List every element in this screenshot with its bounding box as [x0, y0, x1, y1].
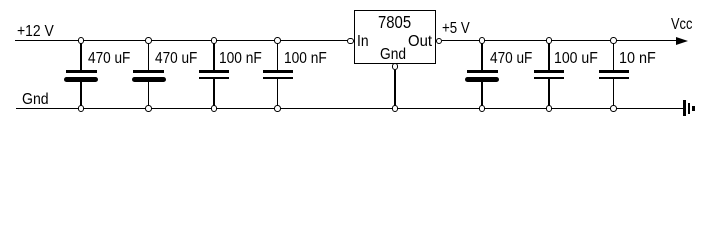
wire: U1 Gnd lead down to rail	[394, 70, 395, 109]
label: +5 V net	[442, 21, 470, 37]
wire: Gnd bottom rail	[16, 108, 683, 109]
label: U1 pin Out	[408, 34, 432, 50]
label: C1 value 470 uF	[88, 51, 130, 67]
wire: +5V rail (U1 Out pin to Vcc arrow)	[442, 40, 676, 41]
capacitor C4 100 nF	[277, 41, 278, 70]
junction: C4 bottom	[274, 105, 281, 112]
junction: C6 top	[546, 37, 553, 44]
junction: C1 bottom	[78, 105, 85, 112]
junction: C1 top	[78, 37, 85, 44]
junction: C3 bottom	[211, 105, 218, 112]
junction: C7 bottom	[610, 105, 617, 112]
label: +12 V net	[17, 24, 54, 40]
pin: U1 Out	[436, 38, 443, 45]
capacitor C7 10 nF	[613, 41, 614, 70]
capacitor C2 470 uF	[148, 41, 149, 70]
label: U1 part number 7805	[378, 14, 411, 30]
label: C2 value 470 uF	[155, 51, 197, 67]
label: C4 value 100 nF	[284, 51, 327, 67]
junction: C2 top	[145, 37, 152, 44]
pin: U1 Gnd	[392, 63, 399, 70]
junction: C5 bottom	[479, 105, 486, 112]
junction: C5 top	[479, 37, 486, 44]
regulator U1 7805 body	[354, 10, 436, 64]
label: C7 value 10 nF	[619, 51, 656, 67]
junction: C7 top	[610, 37, 617, 44]
junction: U1 Gnd at rail	[392, 105, 399, 112]
junction: C3 top	[211, 37, 218, 44]
label: C5 value 470 uF	[490, 51, 532, 67]
ground symbol (chassis, rotated)	[683, 100, 686, 116]
pin: U1 In	[347, 38, 354, 45]
Vcc arrowhead	[676, 37, 688, 45]
label: U1 pin In	[357, 34, 369, 50]
junction: C2 bottom	[145, 105, 152, 112]
junction: C4 top	[274, 37, 281, 44]
capacitor C1 470 uF	[80, 41, 81, 70]
label: C3 value 100 nF	[219, 51, 262, 67]
junction: C6 bottom	[546, 105, 553, 112]
label: C6 value 100 uF	[554, 51, 598, 67]
capacitor C6 100 uF	[548, 41, 549, 70]
wire: +12V top rail (input to U1 In pin)	[15, 40, 348, 41]
label: Vcc net	[671, 17, 692, 33]
label: U1 pin Gnd	[380, 47, 406, 63]
capacitor C3 100 nF	[213, 41, 214, 70]
label: Gnd net	[22, 92, 49, 108]
capacitor C5 470 uF	[481, 41, 482, 70]
